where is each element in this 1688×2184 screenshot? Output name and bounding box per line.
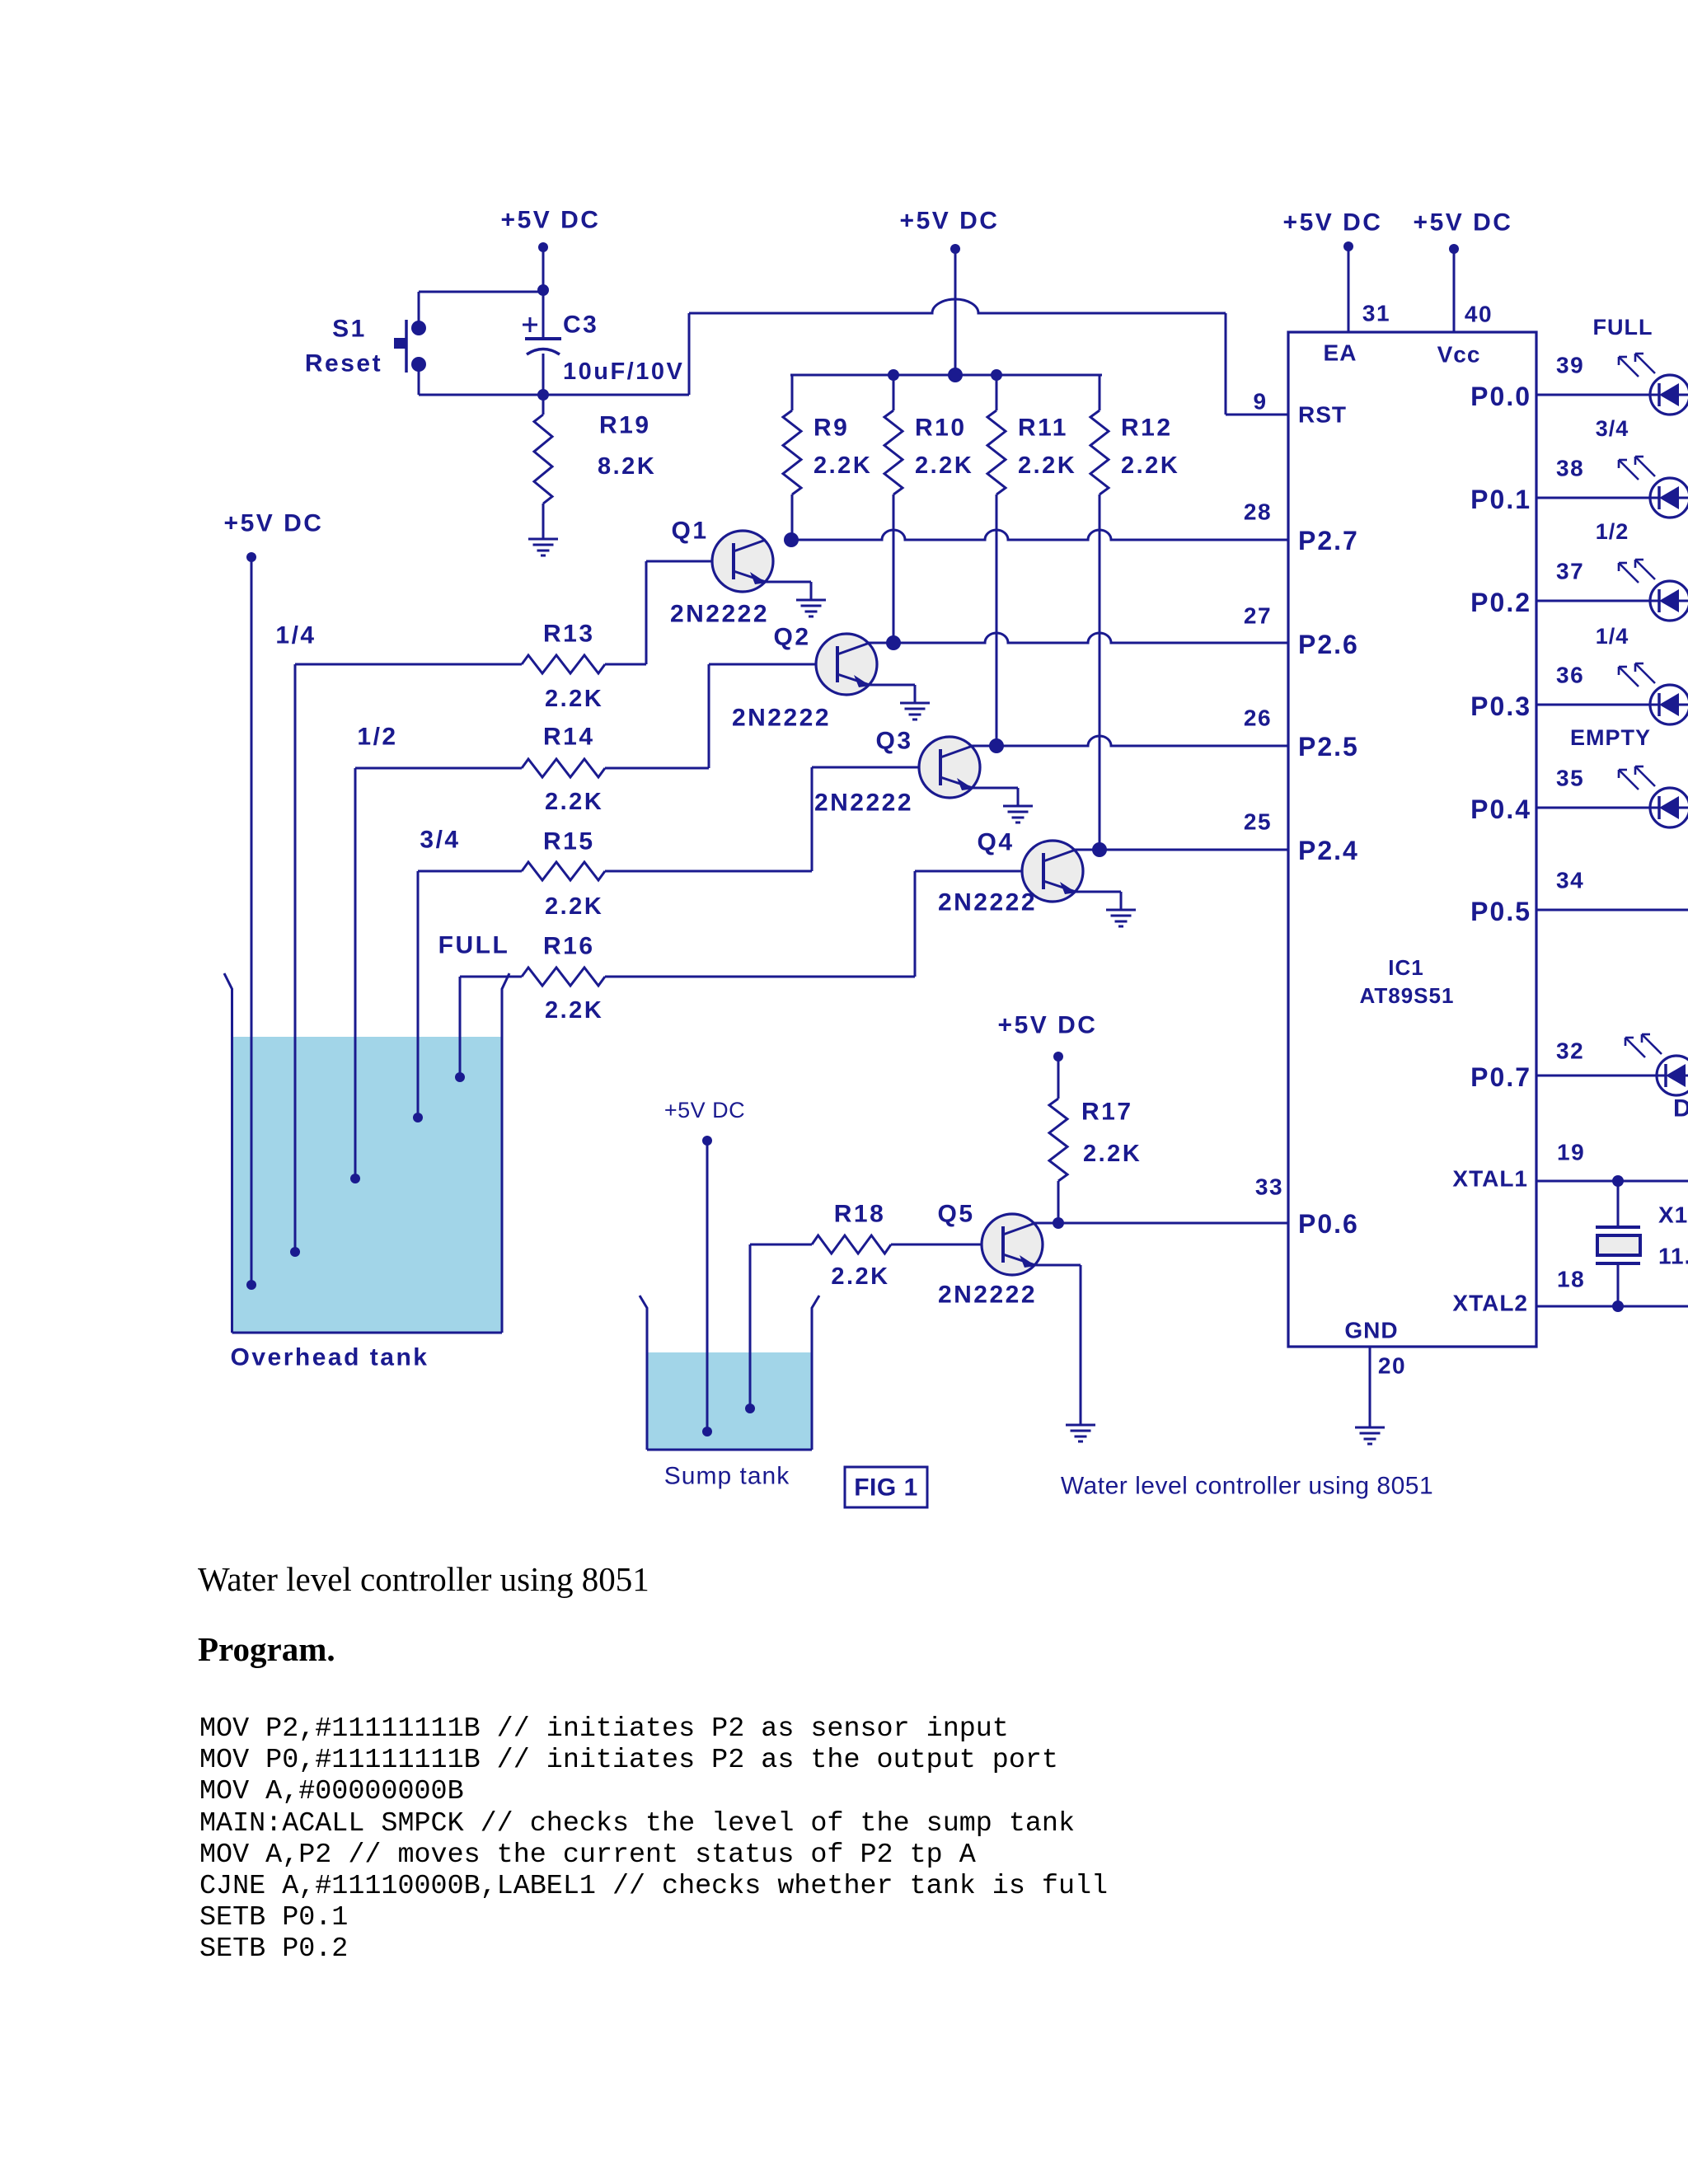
- svg-text:P0.4: P0.4: [1470, 794, 1531, 824]
- svg-text:2.2K: 2.2K: [545, 789, 603, 815]
- resistor R10 2.2K: [884, 375, 973, 643]
- switch S1 (Reset pushbutton): [305, 316, 426, 377]
- svg-text:Vcc: Vcc: [1437, 342, 1481, 368]
- svg-text:32: 32: [1556, 1038, 1584, 1064]
- transistor Q2: [732, 624, 930, 732]
- wire: XTAL2 net: [1536, 1305, 1688, 1308]
- svg-text:36: 36: [1556, 663, 1584, 688]
- svg-text:+5V DC: +5V DC: [501, 207, 601, 234]
- wire: top of S1 loop: [419, 291, 543, 293]
- node: R10/Q2 collector junction: [886, 635, 901, 650]
- svg-text:2N2222: 2N2222: [938, 1282, 1037, 1309]
- wire: 1/2 probe into tank: [354, 768, 357, 1179]
- node: 3/4 probe tip: [413, 1113, 423, 1122]
- wire: P2.6 net (Q2 collector to IC pin 27): [869, 633, 1288, 643]
- node: bus/R11 junction: [991, 369, 1002, 381]
- +5V DC supply (EA pin 31): [1283, 209, 1383, 333]
- crystal X1 11.0592MHz: [1596, 1181, 1688, 1306]
- svg-text:2.2K: 2.2K: [1083, 1141, 1142, 1167]
- svg-text:39: 39: [1556, 353, 1584, 378]
- svg-text:Q3: Q3: [875, 728, 912, 755]
- svg-text:28: 28: [1244, 499, 1272, 525]
- svg-text:2N2222: 2N2222: [732, 705, 831, 732]
- svg-text:GND: GND: [1344, 1318, 1398, 1343]
- wire: P2.5 net (Q3 collector to IC pin 26): [972, 736, 1288, 746]
- svg-text:R10: R10: [915, 415, 967, 442]
- wire: S1 upper stub: [418, 292, 420, 328]
- svg-text:2.2K: 2.2K: [1018, 452, 1076, 479]
- +5V DC supply (sump tank probe): [664, 1098, 745, 1432]
- wire: RST net from C3 junction to IC pin 9: [543, 299, 1288, 415]
- svg-text:Q4: Q4: [977, 829, 1014, 856]
- svg-text:2.2K: 2.2K: [545, 686, 603, 712]
- wire: P2.4 net (Q4 collector to IC pin 25): [1075, 849, 1288, 851]
- svg-text:R15: R15: [543, 828, 595, 855]
- wire: Q3 base L (from R15): [812, 767, 919, 871]
- svg-text:2.2K: 2.2K: [814, 452, 872, 479]
- svg-text:3/4: 3/4: [420, 827, 460, 854]
- LED P0.0: [1619, 354, 1688, 415]
- svg-text:R16: R16: [543, 933, 595, 960]
- node: R11/Q3 collector junction: [989, 738, 1004, 753]
- svg-text:EMPTY: EMPTY: [1570, 725, 1651, 750]
- node: 1/4 probe tip: [290, 1247, 300, 1257]
- svg-text:P0.0: P0.0: [1470, 382, 1531, 411]
- wire: P0.0 net: [1536, 394, 1650, 396]
- wire: P0.1 net: [1536, 497, 1650, 499]
- svg-text:Sump tank: Sump tank: [664, 1463, 790, 1490]
- svg-text:X1: X1: [1658, 1202, 1688, 1228]
- svg-text:P0.3: P0.3: [1470, 691, 1531, 721]
- resistor R12 2.2K: [1090, 375, 1179, 850]
- LED P0.4: [1619, 766, 1688, 827]
- resistor R11 2.2K: [987, 375, 1076, 746]
- svg-text:27: 27: [1244, 603, 1272, 629]
- wire: Q1 base L (from R13): [646, 561, 712, 664]
- svg-text:S1: S1: [332, 316, 367, 343]
- svg-text:R11: R11: [1018, 415, 1068, 442]
- resistor R15 2.2K: [418, 828, 812, 921]
- wire: P2.7 net (Q1 collector to IC pin 28): [791, 530, 1288, 540]
- svg-text:RST: RST: [1298, 402, 1347, 428]
- svg-text:P2.6: P2.6: [1298, 630, 1359, 659]
- node: R9/Q1 collector junction: [784, 532, 799, 547]
- node: 1/2 probe tip: [350, 1174, 360, 1183]
- svg-text:+5V DC: +5V DC: [1414, 209, 1513, 237]
- svg-text:R17: R17: [1081, 1099, 1133, 1126]
- svg-text:P2.5: P2.5: [1298, 732, 1359, 762]
- svg-text:FULL: FULL: [1593, 315, 1653, 340]
- transistor Q5: [937, 1201, 1095, 1442]
- wire: 3/4 probe into tank: [417, 871, 420, 1118]
- wire: Q4 base L (from R16): [915, 871, 1022, 977]
- node: bus/+5V junction: [948, 368, 963, 382]
- ground (Q5 emitter): [1066, 1424, 1095, 1427]
- svg-text:1/4: 1/4: [275, 622, 316, 649]
- svg-text:31: 31: [1362, 301, 1390, 326]
- wire: C3 bottom to R19: [542, 354, 545, 415]
- LED P0.1: [1619, 457, 1688, 518]
- ground (Q4 emitter): [1106, 909, 1136, 912]
- wire: Q2 base L (from R14): [709, 664, 816, 768]
- resistor R13 2.2K: [295, 621, 646, 713]
- svg-text:37: 37: [1556, 559, 1584, 584]
- transistor Q3: [814, 728, 1033, 823]
- svg-text:FULL: FULL: [438, 932, 510, 959]
- svg-text:R18: R18: [834, 1201, 886, 1228]
- svg-text:2N2222: 2N2222: [670, 601, 769, 628]
- svg-text:R9: R9: [814, 415, 849, 442]
- +5V DC supply (above C3): [501, 207, 601, 340]
- +5V DC supply (resistor bus): [900, 208, 1000, 376]
- svg-text:DR: DR: [1673, 1095, 1688, 1122]
- svg-text:9: 9: [1253, 389, 1267, 415]
- svg-text:Water level controller using 8: Water level controller using 8051: [1061, 1473, 1433, 1500]
- IC U1 AT89S51 body: [1288, 332, 1536, 1347]
- wire: P0.6 net (Q5 collector to IC pin 33): [1034, 1222, 1288, 1225]
- svg-text:R14: R14: [543, 724, 595, 751]
- wire: bottom of S1 loop: [419, 394, 543, 396]
- svg-text:EA: EA: [1324, 340, 1357, 366]
- svg-text:3/4: 3/4: [1596, 416, 1629, 441]
- svg-text:+5V DC: +5V DC: [224, 510, 324, 537]
- wire: resistor bus R9-R12 tops: [790, 374, 1102, 377]
- svg-text:+5V DC: +5V DC: [664, 1098, 745, 1122]
- svg-text:18: 18: [1557, 1267, 1585, 1292]
- resistor R19 8.2K: [534, 412, 656, 540]
- FIG 1 box: [845, 1467, 927, 1507]
- ground (Q3 emitter): [1003, 805, 1033, 808]
- svg-text:2.2K: 2.2K: [545, 997, 603, 1024]
- node: C3 top junction: [537, 284, 549, 296]
- ground (IC pin 20): [1355, 1427, 1385, 1429]
- svg-text:2.2K: 2.2K: [915, 452, 973, 479]
- svg-text:Q5: Q5: [937, 1201, 974, 1228]
- +5V DC supply (Vcc pin 40): [1414, 209, 1513, 333]
- svg-text:1/2: 1/2: [357, 724, 397, 751]
- overhead tank (water): [224, 973, 509, 1371]
- svg-text:2N2222: 2N2222: [814, 790, 913, 817]
- svg-text:FIG 1: FIG 1: [854, 1474, 918, 1502]
- LED P0.2: [1619, 560, 1688, 621]
- svg-text:AT89S51: AT89S51: [1360, 983, 1455, 1008]
- svg-text:35: 35: [1556, 766, 1584, 791]
- svg-text:11.0: 11.0: [1658, 1244, 1688, 1269]
- node: XTAL1/crystal junction: [1612, 1175, 1624, 1187]
- svg-text:P2.7: P2.7: [1298, 526, 1359, 555]
- resistor R14 2.2K: [355, 724, 709, 816]
- node: C3/R19/RST junction: [537, 389, 549, 401]
- svg-text:R19: R19: [599, 412, 651, 439]
- resistor R16 2.2K: [460, 933, 915, 1024]
- wire: P0.5 net: [1536, 909, 1688, 912]
- svg-text:10uF/10V: 10uF/10V: [563, 359, 684, 385]
- svg-text:19: 19: [1557, 1140, 1585, 1165]
- svg-text:C3: C3: [563, 312, 598, 339]
- ground (below R19): [528, 538, 558, 541]
- wire: P0.7 net: [1536, 1075, 1657, 1077]
- ground (Q2 emitter): [900, 702, 930, 705]
- svg-text:+5V DC: +5V DC: [900, 208, 1000, 235]
- svg-text:2N2222: 2N2222: [938, 889, 1037, 916]
- svg-text:Reset: Reset: [305, 350, 382, 377]
- svg-text:38: 38: [1556, 456, 1584, 481]
- resistor R17 2.2K: [1049, 1099, 1142, 1224]
- wire: R18 probe into sump tank: [749, 1244, 752, 1408]
- svg-text:1/2: 1/2: [1596, 519, 1629, 544]
- svg-text:P0.1: P0.1: [1470, 485, 1531, 514]
- sump tank (water): [640, 1296, 819, 1490]
- resistor R18 2.2K: [750, 1201, 982, 1291]
- svg-text:20: 20: [1378, 1353, 1406, 1379]
- node: R17/Q5 collector junction: [1053, 1217, 1064, 1229]
- svg-text:2.2K: 2.2K: [831, 1263, 889, 1290]
- node: sump level probe tip: [745, 1404, 755, 1413]
- LED P0.7: [1625, 1034, 1688, 1095]
- svg-text:34: 34: [1556, 868, 1584, 893]
- svg-text:R12: R12: [1121, 415, 1173, 442]
- svg-text:+5V DC: +5V DC: [1283, 209, 1383, 237]
- ground (Q1 emitter): [796, 599, 826, 602]
- node: XTAL2/crystal junction: [1612, 1301, 1624, 1312]
- wire: P0.4 net: [1536, 807, 1650, 809]
- resistor R9 2.2K: [783, 375, 872, 540]
- svg-text:P0.2: P0.2: [1470, 588, 1531, 617]
- svg-text:Overhead tank: Overhead tank: [231, 1344, 429, 1371]
- svg-text:XTAL2: XTAL2: [1452, 1291, 1528, 1316]
- wire: P0.2 net: [1536, 600, 1650, 602]
- wire: 1/4 probe into tank: [294, 664, 297, 1252]
- wire: P0.3 net: [1536, 704, 1650, 706]
- wire: XTAL1 net: [1536, 1180, 1688, 1183]
- svg-text:25: 25: [1244, 809, 1272, 835]
- node: +5V probe tip (overhead tank): [246, 1280, 256, 1290]
- svg-text:P0.6: P0.6: [1298, 1209, 1359, 1239]
- svg-text:+5V DC: +5V DC: [998, 1012, 1098, 1039]
- svg-text:P2.4: P2.4: [1298, 836, 1359, 865]
- wire: S1 lower stub: [418, 364, 420, 395]
- svg-text:IC1: IC1: [1388, 955, 1423, 980]
- +5V DC supply (R17): [998, 1012, 1098, 1099]
- capacitor C3 10uF/10V: [523, 312, 684, 386]
- transistor Q4: [938, 829, 1136, 927]
- svg-text:Q1: Q1: [671, 518, 708, 545]
- svg-text:8.2K: 8.2K: [598, 453, 656, 480]
- svg-text:Q2: Q2: [773, 624, 810, 651]
- svg-text:XTAL1: XTAL1: [1452, 1166, 1528, 1192]
- node: R12/Q4 collector junction: [1092, 842, 1107, 857]
- svg-text:40: 40: [1465, 302, 1493, 327]
- LED P0.3: [1619, 663, 1688, 724]
- svg-text:26: 26: [1244, 705, 1272, 731]
- svg-text:2.2K: 2.2K: [1121, 452, 1179, 479]
- svg-text:2.2K: 2.2K: [545, 893, 603, 920]
- svg-text:P0.5: P0.5: [1470, 897, 1531, 926]
- svg-text:1/4: 1/4: [1596, 624, 1629, 649]
- transistor Q1: [670, 518, 826, 628]
- node: bus/R10 junction: [888, 369, 899, 381]
- wire: GND pin 20: [1369, 1347, 1371, 1427]
- +5V DC supply (overhead tank probe): [224, 510, 324, 1286]
- svg-text:33: 33: [1255, 1174, 1283, 1200]
- node: sump +5V probe tip: [702, 1427, 712, 1436]
- svg-text:R13: R13: [543, 621, 595, 648]
- node: FULL probe tip: [455, 1072, 465, 1082]
- svg-text:P0.7: P0.7: [1470, 1062, 1531, 1092]
- wire: FULL probe into tank: [459, 977, 462, 1077]
